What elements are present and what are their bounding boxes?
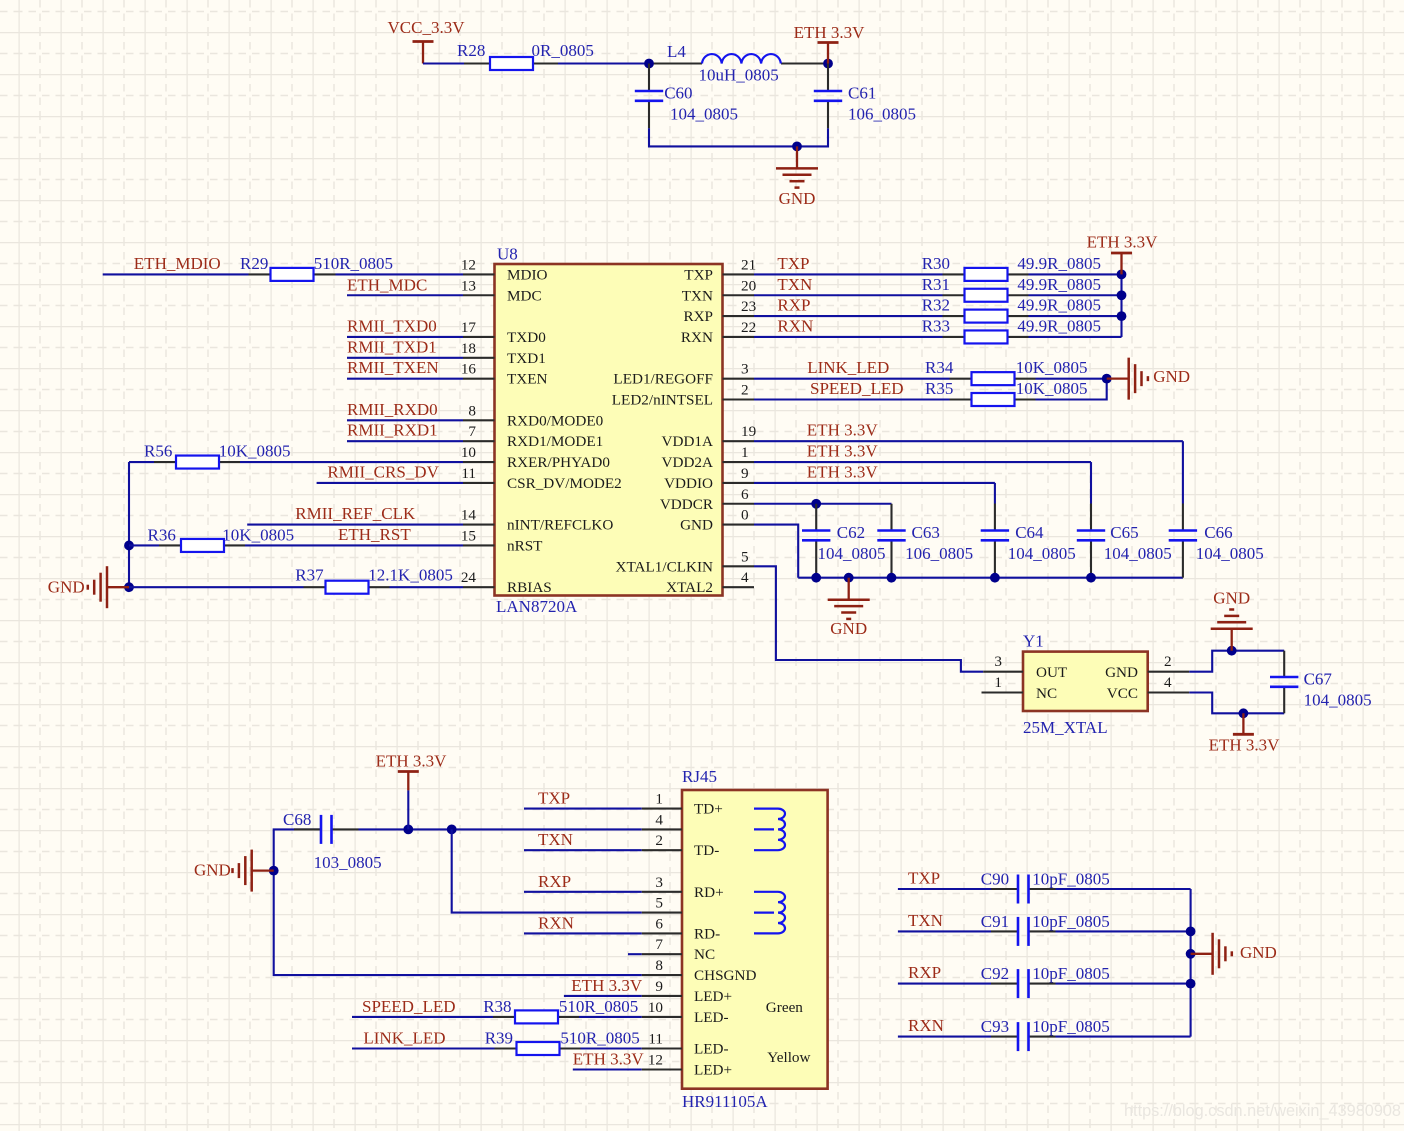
svg-text:RMII_REF_CLK: RMII_REF_CLK	[295, 504, 416, 523]
svg-text:12.1K_0805: 12.1K_0805	[368, 565, 453, 584]
svg-text:GND: GND	[1240, 943, 1277, 962]
RJ45 pin 11 LED-	[642, 1031, 729, 1058]
power ETH 3.3V	[794, 23, 866, 64]
resistor R31	[922, 275, 1101, 302]
U8 pin 11 CSR_DV/MODE2	[461, 465, 621, 492]
svg-text:2: 2	[741, 382, 749, 399]
svg-text:4: 4	[1164, 674, 1172, 691]
junction	[124, 541, 134, 551]
svg-text:7: 7	[468, 423, 476, 440]
wire	[129, 461, 154, 463]
RJ45 transformer coil RD	[754, 892, 785, 934]
svg-text:RMII_TXD1: RMII_TXD1	[347, 337, 437, 356]
svg-text:ETH 3.3V: ETH 3.3V	[571, 976, 643, 995]
svg-text:510R_0805: 510R_0805	[314, 254, 393, 273]
svg-text:RXP: RXP	[908, 963, 941, 982]
svg-text:12: 12	[461, 256, 476, 273]
svg-text:22: 22	[741, 319, 756, 336]
resistor R38	[483, 997, 638, 1024]
U8 pin 15 nRST	[461, 527, 543, 554]
svg-text:Green: Green	[766, 999, 804, 1016]
svg-text:R33: R33	[922, 316, 950, 335]
svg-text:TXD0: TXD0	[507, 329, 546, 346]
svg-text:5: 5	[741, 548, 749, 565]
svg-text:104_0805: 104_0805	[1196, 544, 1264, 563]
svg-text:ETH_MDC: ETH_MDC	[347, 275, 427, 294]
svg-text:10uH_0805: 10uH_0805	[699, 66, 779, 85]
wire	[347, 357, 463, 359]
svg-text:RMII_TXD0: RMII_TXD0	[347, 317, 437, 336]
svg-text:RMII_CRS_DV: RMII_CRS_DV	[327, 462, 439, 481]
capacitor C91	[981, 912, 1110, 946]
wire	[1036, 379, 1107, 400]
svg-text:ETH 3.3V: ETH 3.3V	[1209, 736, 1281, 755]
wire	[649, 128, 828, 146]
wire	[524, 808, 642, 810]
svg-text:R29: R29	[240, 254, 268, 273]
U8 pin 12 MDIO	[461, 256, 548, 283]
junction	[269, 866, 279, 876]
svg-text:GND: GND	[830, 619, 867, 638]
wire	[129, 544, 159, 546]
wire	[754, 398, 950, 400]
svg-text:10K_0805: 10K_0805	[1016, 358, 1088, 377]
svg-text:7: 7	[655, 936, 663, 953]
wire	[274, 829, 642, 975]
Y1 pin 3 OUT	[983, 653, 1068, 681]
svg-text:GND: GND	[48, 578, 85, 597]
ground	[1211, 610, 1253, 651]
power ETH 3.3V	[1209, 713, 1281, 754]
capacitor C67	[1270, 651, 1372, 714]
svg-text:RXN: RXN	[538, 913, 574, 932]
svg-text:C63: C63	[912, 523, 940, 542]
svg-text:1: 1	[994, 674, 1002, 691]
power ETH 3.3V	[1087, 232, 1159, 274]
svg-text:RXN: RXN	[681, 329, 713, 346]
svg-text:RXD1/MODE1: RXD1/MODE1	[507, 433, 603, 450]
wire	[1029, 273, 1122, 275]
wire	[754, 503, 892, 505]
svg-text:R35: R35	[925, 379, 953, 398]
svg-text:RMII_TXEN: RMII_TXEN	[347, 358, 439, 377]
ground	[1107, 358, 1148, 400]
capacitor C64	[981, 504, 1076, 578]
resistor R56	[144, 442, 290, 469]
svg-text:106_0805: 106_0805	[905, 544, 973, 563]
svg-text:TXP: TXP	[538, 789, 570, 808]
svg-text:VDDIO: VDDIO	[664, 475, 713, 492]
wire	[103, 273, 249, 275]
capacitor C66	[1169, 504, 1264, 578]
RJ45 pin 7 NC	[642, 936, 715, 963]
RJ45 pin 1 TD+	[642, 791, 723, 818]
junction	[792, 142, 802, 152]
wire	[347, 440, 463, 442]
svg-text:15: 15	[461, 527, 476, 544]
wire	[336, 273, 464, 275]
RJ45 transformer coil TD	[754, 809, 785, 851]
junction	[1239, 708, 1249, 718]
svg-text:C91: C91	[981, 912, 1009, 931]
svg-text:C92: C92	[981, 964, 1009, 983]
svg-text:C64: C64	[1015, 523, 1044, 542]
svg-text:LED2/nINTSEL: LED2/nINTSEL	[612, 392, 713, 409]
svg-text:U8: U8	[497, 245, 518, 264]
wire	[754, 440, 1183, 442]
svg-text:R38: R38	[483, 997, 511, 1016]
wire	[898, 983, 991, 985]
svg-text:49.9R_0805: 49.9R_0805	[1017, 296, 1101, 315]
svg-text:LAN8720A: LAN8720A	[496, 597, 578, 616]
U8 pin 6 VDDCR	[660, 486, 754, 513]
junction	[124, 582, 134, 592]
capacitor C90	[981, 870, 1110, 904]
wire	[390, 586, 464, 588]
junction	[447, 825, 457, 835]
junction	[990, 573, 1000, 583]
U8 pin 0 GND	[680, 507, 754, 534]
svg-text:R34: R34	[925, 358, 954, 377]
svg-text:GND: GND	[680, 517, 713, 534]
svg-text:TXN: TXN	[538, 830, 573, 849]
svg-text:RD-: RD-	[694, 925, 720, 942]
capacitor C60	[635, 64, 738, 129]
svg-text:9: 9	[741, 465, 749, 482]
wire	[898, 930, 991, 932]
wire	[1120, 274, 1122, 337]
junction	[1186, 979, 1196, 989]
svg-text:RXP: RXP	[777, 296, 810, 315]
U8 pin 22 RXN	[681, 319, 756, 346]
resistor R30	[922, 254, 1101, 281]
U8 pin 10 RXER/PHYAD0	[461, 444, 611, 471]
svg-text:SPEED_LED: SPEED_LED	[810, 379, 904, 398]
svg-text:6: 6	[741, 486, 749, 503]
svg-text:24: 24	[461, 569, 477, 586]
wire	[347, 419, 463, 421]
wire	[128, 462, 130, 587]
svg-text:LINK_LED: LINK_LED	[363, 1029, 445, 1048]
ground	[828, 578, 870, 619]
junction	[1186, 949, 1196, 959]
U8 pin 16 TXEN	[461, 361, 548, 388]
svg-text:NC: NC	[1036, 685, 1057, 702]
svg-text:TXD1: TXD1	[507, 350, 546, 367]
wire	[240, 461, 463, 463]
junction	[1117, 311, 1127, 321]
svg-text:C65: C65	[1110, 523, 1138, 542]
svg-text:11: 11	[461, 465, 476, 482]
svg-text:ETH_MDIO: ETH_MDIO	[134, 254, 221, 273]
wire	[352, 1047, 495, 1049]
wire	[423, 62, 464, 64]
capacitor C92	[981, 964, 1110, 998]
power ETH 3.3V	[376, 752, 448, 791]
junction	[823, 59, 833, 69]
wire	[1029, 315, 1122, 317]
wire	[524, 932, 642, 934]
svg-text:17: 17	[461, 319, 477, 336]
svg-text:VDDCR: VDDCR	[660, 496, 714, 513]
svg-text:RXP: RXP	[683, 308, 713, 325]
resistor R35	[925, 379, 1087, 406]
junction	[844, 573, 854, 583]
svg-text:TXP: TXP	[684, 266, 713, 283]
U8 pin 17 TXD0	[461, 319, 546, 346]
junction	[1117, 270, 1127, 280]
junction	[1086, 573, 1096, 583]
wire	[754, 336, 943, 338]
svg-text:https://blog.csdn.net/weixin_4: https://blog.csdn.net/weixin_43980908	[1124, 1102, 1401, 1120]
wire	[352, 1016, 493, 1018]
resistor R39	[485, 1029, 640, 1056]
ground	[776, 146, 818, 187]
svg-text:19: 19	[741, 423, 756, 440]
svg-text:8: 8	[655, 957, 663, 974]
svg-text:10pF_0805: 10pF_0805	[1032, 964, 1109, 983]
svg-text:Y1: Y1	[1023, 632, 1044, 651]
svg-text:3: 3	[994, 653, 1002, 670]
wire	[754, 461, 1091, 463]
svg-text:49.9R_0805: 49.9R_0805	[1017, 316, 1101, 335]
svg-text:8: 8	[468, 402, 476, 419]
capacitor C63	[877, 504, 973, 578]
wire	[129, 586, 304, 588]
resistor R32	[922, 296, 1101, 323]
svg-text:SPEED_LED: SPEED_LED	[362, 997, 456, 1016]
svg-text:LED-: LED-	[694, 1041, 729, 1058]
resistor R36	[148, 525, 295, 552]
svg-text:VDD2A: VDD2A	[662, 454, 713, 471]
svg-text:21: 21	[741, 256, 756, 273]
wire	[1056, 888, 1191, 890]
wire	[558, 62, 649, 64]
svg-text:104_0805: 104_0805	[1304, 690, 1372, 709]
wire	[754, 378, 950, 380]
svg-text:C60: C60	[664, 83, 692, 102]
svg-text:RXER/PHYAD0: RXER/PHYAD0	[507, 454, 610, 471]
svg-text:R36: R36	[148, 525, 176, 544]
wire	[754, 315, 943, 317]
svg-text:RMII_RXD0: RMII_RXD0	[347, 400, 438, 419]
U8 pin 13 MDC	[461, 277, 542, 304]
junction	[1227, 646, 1237, 656]
svg-text:TD+: TD+	[694, 801, 723, 818]
U8 pin 14 nINT/REFCLKO	[461, 507, 614, 534]
resistor R28	[457, 41, 594, 70]
U8 pin 7 RXD1/MODE1	[463, 423, 603, 450]
svg-text:10pF_0805: 10pF_0805	[1032, 1017, 1109, 1036]
svg-text:TXN: TXN	[682, 287, 713, 304]
svg-text:R39: R39	[485, 1029, 513, 1048]
junction	[1186, 927, 1196, 937]
RJ45 pin 4	[642, 811, 682, 829]
svg-text:Yellow: Yellow	[767, 1049, 810, 1066]
svg-text:ETH_RST: ETH_RST	[338, 525, 411, 544]
svg-text:103_0805: 103_0805	[314, 853, 382, 872]
op-amp U8 LAN8720A body	[495, 245, 723, 617]
svg-text:10: 10	[461, 444, 477, 461]
U8 pin 2 LED2/nINTSEL	[612, 382, 754, 409]
junction	[1117, 290, 1127, 300]
wire	[1056, 930, 1191, 932]
svg-text:10pF_0805: 10pF_0805	[1032, 912, 1109, 931]
wire	[1190, 889, 1192, 1037]
Y1 pin 1 NC	[982, 674, 1058, 702]
svg-text:RXD0/MODE0: RXD0/MODE0	[507, 412, 604, 429]
wire	[524, 849, 642, 851]
wire	[1189, 651, 1284, 672]
wire	[317, 482, 463, 484]
U8 pin 23 RXP	[683, 298, 756, 325]
svg-text:ETH 3.3V: ETH 3.3V	[376, 752, 448, 771]
wire	[798, 577, 1183, 579]
junction	[644, 59, 654, 69]
svg-text:6: 6	[655, 915, 663, 932]
svg-text:RJ45: RJ45	[682, 767, 717, 786]
RJ45 pin 2 TD-	[642, 832, 720, 859]
wire	[1029, 294, 1122, 296]
wire	[573, 1068, 642, 1070]
svg-text:49.9R_0805: 49.9R_0805	[1017, 254, 1101, 273]
svg-text:510R_0805: 510R_0805	[560, 1029, 639, 1048]
svg-text:ETH 3.3V: ETH 3.3V	[573, 1050, 645, 1069]
svg-text:20: 20	[741, 277, 757, 294]
svg-text:3: 3	[655, 874, 663, 891]
svg-text:TXEN: TXEN	[507, 371, 548, 388]
svg-text:RD+: RD+	[694, 884, 724, 901]
svg-text:C68: C68	[283, 810, 311, 829]
svg-text:RXP: RXP	[538, 872, 571, 891]
svg-text:12: 12	[648, 1052, 663, 1069]
wire	[754, 482, 995, 484]
svg-text:104_0805: 104_0805	[1008, 544, 1076, 563]
wire	[1056, 1036, 1191, 1038]
wire	[407, 790, 409, 829]
svg-text:ETH 3.3V: ETH 3.3V	[794, 23, 866, 42]
svg-text:L4: L4	[667, 42, 686, 61]
svg-text:104_0805: 104_0805	[670, 104, 738, 123]
wire	[898, 1036, 991, 1038]
RJ45 pin 6 RD-	[642, 915, 720, 942]
svg-text:RXN: RXN	[908, 1016, 944, 1035]
wire	[347, 294, 463, 296]
svg-text:TD-: TD-	[694, 842, 719, 859]
wire	[247, 524, 463, 526]
svg-text:R32: R32	[922, 296, 950, 315]
Y1 pin 2 GND	[1105, 653, 1189, 681]
svg-text:104_0805: 104_0805	[1104, 544, 1172, 563]
wire	[1056, 983, 1191, 985]
U8 pin 3 LED1/REGOFF	[613, 361, 754, 388]
RJ45 pin 10 LED-	[642, 999, 729, 1026]
capacitor C65	[1077, 504, 1172, 578]
svg-text:GND: GND	[779, 189, 816, 208]
svg-text:NC: NC	[694, 946, 715, 963]
svg-text:GND: GND	[1153, 367, 1190, 386]
svg-text:16: 16	[461, 361, 477, 378]
svg-text:R56: R56	[144, 442, 172, 461]
svg-text:14: 14	[461, 507, 477, 524]
svg-text:RMII_RXD1: RMII_RXD1	[347, 421, 438, 440]
svg-text:XTAL2: XTAL2	[666, 579, 713, 596]
svg-text:XTAL1/CLKIN: XTAL1/CLKIN	[616, 558, 714, 575]
svg-text:GND: GND	[1105, 664, 1138, 681]
U8 pin 18 TXD1	[461, 340, 546, 367]
wire	[754, 566, 983, 671]
ground	[88, 566, 129, 608]
ground	[1191, 933, 1232, 975]
U8 pin 5 XTAL1/CLKIN	[616, 548, 755, 575]
svg-text:LED-: LED-	[694, 1009, 729, 1026]
wire	[994, 483, 996, 504]
svg-text:nRST: nRST	[507, 537, 543, 554]
svg-text:TXP: TXP	[908, 869, 940, 888]
U8 pin 4 XTAL2	[666, 569, 754, 596]
wire	[524, 891, 642, 893]
U8 pin 1 VDD2A	[662, 444, 754, 471]
svg-text:GND: GND	[1213, 589, 1250, 608]
svg-text:LINK_LED: LINK_LED	[807, 358, 889, 377]
svg-text:4: 4	[741, 569, 749, 586]
svg-text:RBIAS: RBIAS	[507, 579, 552, 596]
svg-text:2: 2	[655, 832, 663, 849]
junction	[887, 573, 897, 583]
RJ45 pin 5	[642, 895, 682, 913]
RJ45 pin 12 LED+	[642, 1052, 732, 1079]
svg-text:VCC: VCC	[1107, 685, 1138, 702]
svg-text:4: 4	[655, 811, 663, 828]
svg-text:C62: C62	[837, 523, 865, 542]
svg-text:R30: R30	[922, 254, 950, 273]
svg-text:10: 10	[648, 999, 664, 1016]
capacitor C62	[802, 504, 886, 578]
svg-text:10K_0805: 10K_0805	[1016, 379, 1088, 398]
wire	[452, 829, 642, 912]
inductor L4	[649, 42, 828, 85]
svg-text:RXN: RXN	[777, 316, 813, 335]
svg-text:510R_0805: 510R_0805	[559, 997, 638, 1016]
U8 pin 24 RBIAS	[461, 569, 552, 596]
connector RJ45 HR911105A body	[682, 767, 828, 1111]
wire	[754, 525, 798, 578]
crystal Y1 25M_XTAL body	[1023, 632, 1148, 738]
svg-text:106_0805: 106_0805	[848, 104, 916, 123]
Y1 pin 4 VCC	[1107, 674, 1190, 702]
svg-text:LED1/REGOFF: LED1/REGOFF	[613, 371, 713, 388]
svg-text:C90: C90	[981, 870, 1009, 889]
wire	[1029, 336, 1122, 338]
capacitor C93	[981, 1017, 1110, 1051]
U8 pin 8 RXD0/MODE0	[463, 402, 604, 429]
svg-text:13: 13	[461, 277, 476, 294]
svg-text:ETH 3.3V: ETH 3.3V	[1087, 232, 1159, 251]
wire	[1090, 462, 1092, 503]
svg-text:HR911105A: HR911105A	[682, 1092, 768, 1111]
wire	[1182, 441, 1184, 503]
RJ45 pin 9 LED+	[642, 978, 732, 1005]
svg-text:VCC_3.3V: VCC_3.3V	[388, 18, 466, 37]
svg-text:nINT/REFCLKO: nINT/REFCLKO	[507, 517, 613, 534]
svg-text:1: 1	[655, 791, 663, 808]
svg-text:LED+: LED+	[694, 1062, 732, 1079]
power VCC_3.3V	[388, 18, 466, 64]
svg-text:C93: C93	[981, 1017, 1009, 1036]
svg-text:OUT: OUT	[1036, 664, 1068, 681]
junction	[403, 825, 413, 835]
capacitor C61	[814, 64, 916, 129]
